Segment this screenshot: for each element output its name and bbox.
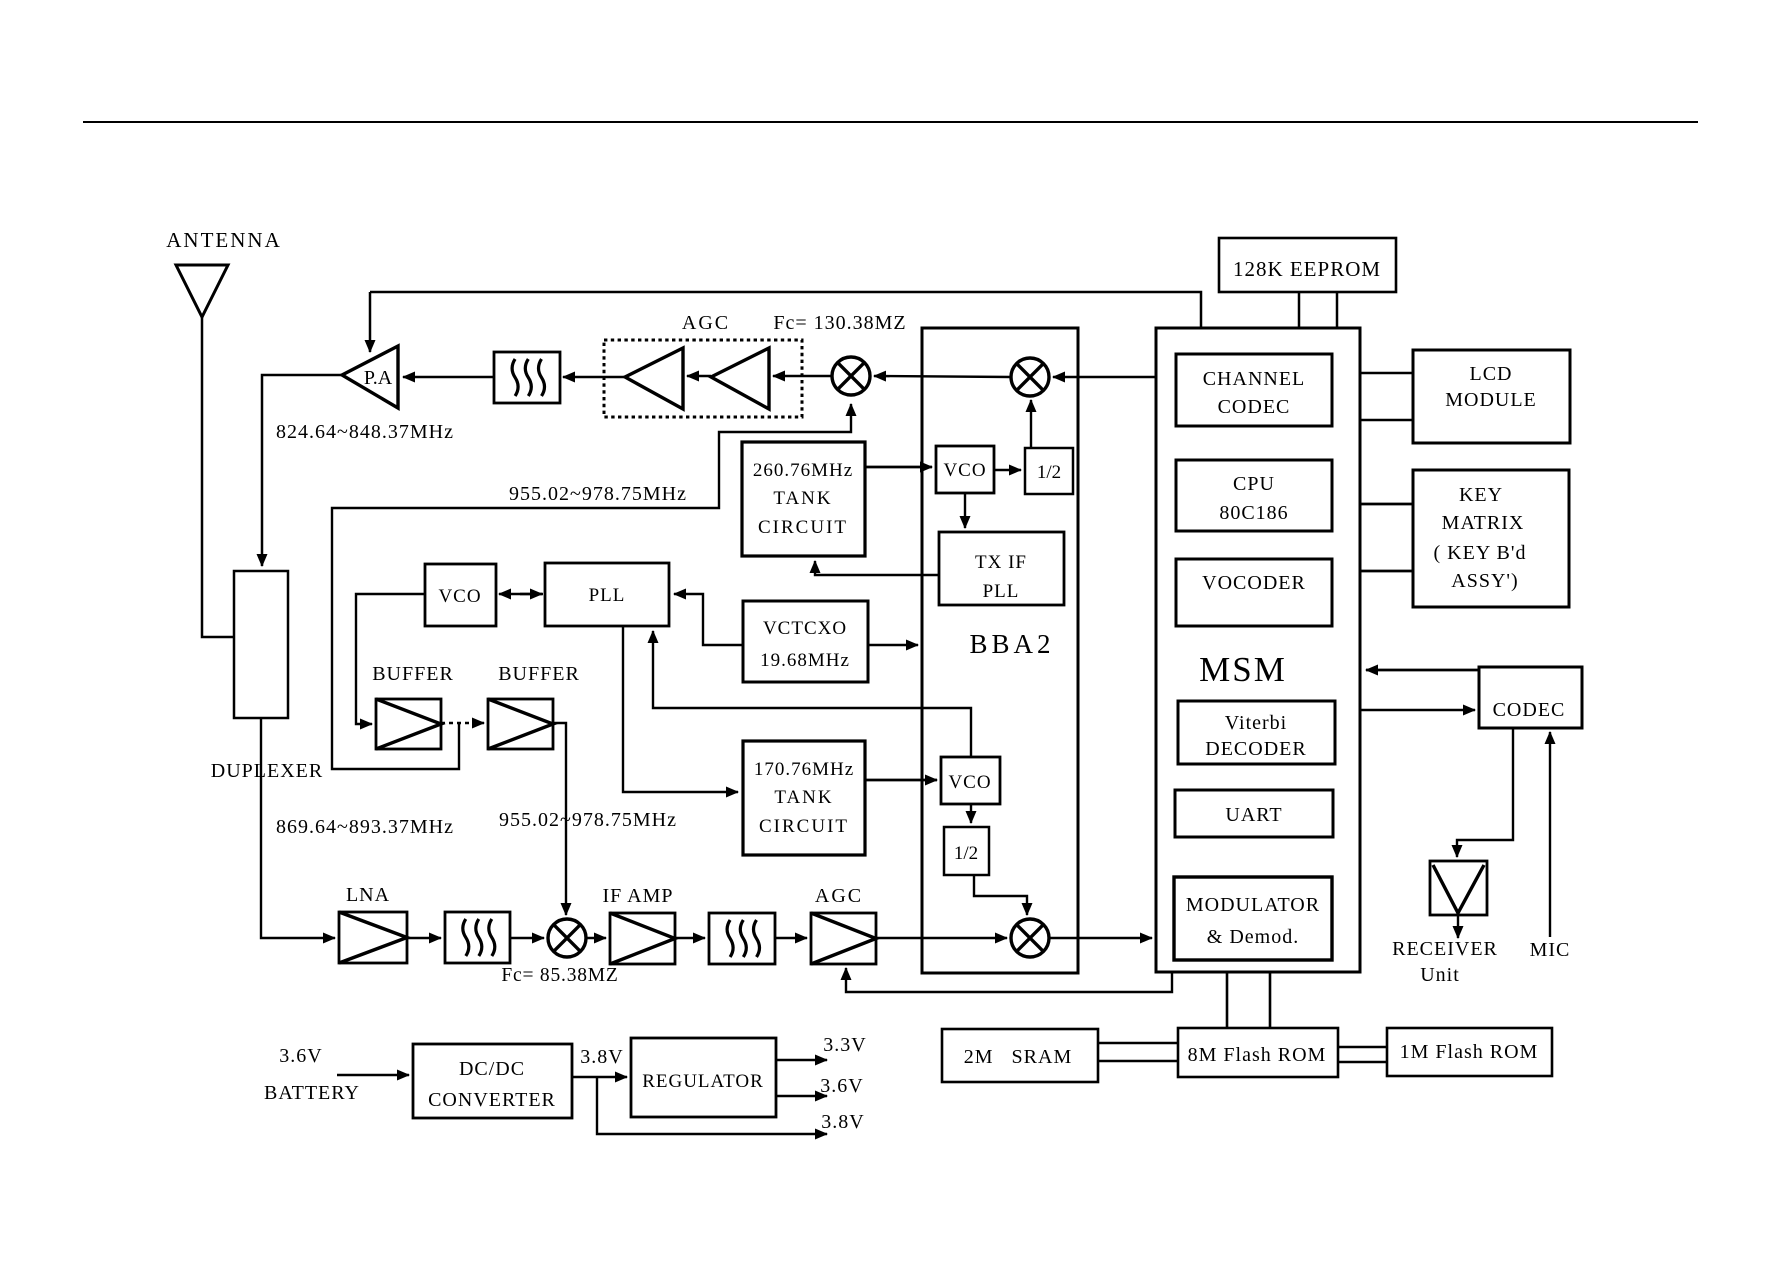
vocoder block [1176,559,1332,626]
svg-text:LCD: LCD [1470,363,1513,385]
divider 1/2 A [1025,448,1073,494]
svg-text:3.6V: 3.6V [820,1075,863,1097]
channel codec block [1176,354,1332,426]
if amplifier [610,913,675,964]
wire msm to 8m flash 1 [1226,972,1229,1028]
label MSM [1199,650,1287,689]
svg-text:TANK: TANK [773,488,832,509]
svg-text:CODEC: CODEC [1493,699,1566,721]
wire divider A to mixer TX2 [1030,400,1032,448]
wire mixer RX2 to MSM [1049,937,1152,939]
svg-text:CIRCUIT: CIRCUIT [759,816,849,837]
svg-text:Viterbi: Viterbi [1225,712,1287,734]
svg-text:Fc= 85.38MZ: Fc= 85.38MZ [501,965,618,986]
label TX band 824.64~848.37MHz [276,421,454,443]
wire VCO U1 and PLL U2 right [520,593,542,595]
svg-text:KEY: KEY [1459,484,1503,506]
svg-text:VCO: VCO [438,586,481,607]
wire msm to 8m flash 2 [1269,972,1272,1028]
wire AGC stage2 to stage1 [687,375,711,377]
svg-text:& Demod.: & Demod. [1207,926,1299,948]
wire battery to dcdc [337,1074,409,1076]
svg-text:BUFFER: BUFFER [498,663,580,685]
svg-text:19.68MHz: 19.68MHz [760,650,850,671]
svg-text:CPU: CPU [1233,473,1275,495]
amplifier P.A [342,346,398,408]
svg-text:VOCODER: VOCODER [1202,572,1306,594]
regulator box [631,1038,776,1117]
wire VCO U5 to divider B [970,804,972,823]
wire LNA to filter FL3 [407,937,441,939]
svg-text:DECODER: DECODER [1205,738,1306,760]
mixer TX2 [1011,358,1049,396]
buffer B2 [488,699,553,749]
wire eeprom to msm 2 [1336,292,1339,327]
wire TX LO from buffer tap to mixer TX1 [332,404,851,769]
svg-text:REGULATOR: REGULATOR [642,1071,764,1092]
codec box [1479,667,1582,728]
pll U2 [545,563,669,626]
label 955.02~978.75MHz upper [509,483,687,505]
bus 8m to 1m flash upper [1338,1046,1387,1049]
wire 3.8V branch [597,1077,827,1134]
wire mixer RX1 to IF AMP [586,937,606,939]
svg-text:CIRCUIT: CIRCUIT [758,517,848,538]
svg-text:955.02~978.75MHz: 955.02~978.75MHz [499,809,677,831]
vco U5 [941,757,1000,804]
label Fc= 130.38MZ [773,312,906,334]
mixer RX2 [1011,919,1049,957]
wire AGC amp to mixer RX2 [876,937,1007,939]
svg-text:( KEY B'd: ( KEY B'd [1434,542,1527,564]
wire IF AMP to filter FL4 [675,937,705,939]
svg-text:VCO: VCO [943,460,986,481]
svg-text:DUPLEXER: DUPLEXER [211,760,323,782]
receiver unit symbol [1430,861,1487,915]
svg-text:3.8V: 3.8V [821,1111,864,1133]
wire codec to msm [1366,669,1479,672]
svg-text:RECEIVER: RECEIVER [1392,938,1498,960]
wire codec to receiver [1457,728,1513,857]
wire P.A to duplexer [262,375,342,566]
svg-text:VCTCXO: VCTCXO [763,618,847,639]
svg-text:BUFFER: BUFFER [372,663,454,685]
svg-text:MODULE: MODULE [1445,389,1537,411]
wire feedback to P.A input [369,292,372,352]
viterbi decoder block [1178,701,1335,764]
svg-text:AGC: AGC [682,312,730,334]
wire msm to lcd 1 [1360,372,1413,375]
wire regulator 3.3V [776,1059,827,1061]
wire AGC gain control from MSM [846,968,1172,992]
svg-text:ASSY'): ASSY') [1451,570,1518,592]
wire msm to key 1 [1360,503,1413,506]
lcd module box [1413,350,1570,443]
wire tank T2 to VCO U5 [865,779,937,782]
mixer RX1 [548,919,586,957]
bus 8m to 1m flash lower [1338,1061,1387,1064]
svg-text:1/2: 1/2 [1037,462,1061,483]
svg-text:BBA2: BBA2 [969,629,1054,659]
svg-text:UART: UART [1225,804,1282,826]
svg-text:P.A: P.A [364,367,393,389]
svg-text:Fc= 130.38MZ: Fc= 130.38MZ [773,312,906,334]
sram box [942,1029,1098,1082]
wire VCO U5 feedback to PLL U2 [653,631,971,757]
bus sram to 8m flash lower [1098,1060,1178,1063]
filter FL4 [709,913,775,964]
bba2 box [922,328,1078,973]
vctcxo X1 [743,601,868,682]
svg-text:3.8V: 3.8V [580,1046,623,1068]
label MIC [1530,939,1571,961]
svg-text:260.76MHz: 260.76MHz [753,460,853,481]
eeprom box [1219,238,1396,292]
svg-text:MSM: MSM [1199,650,1287,689]
wire VCTCXO to PLL U2 [674,594,743,645]
svg-text:CHANNEL: CHANNEL [1203,368,1306,390]
label IF AMP [602,885,673,907]
tx if pll U4 [939,532,1064,605]
wire mic to codec [1549,732,1551,937]
svg-text:CONVERTER: CONVERTER [428,1089,556,1111]
antenna label [166,228,281,252]
wire feedback from MSM [370,292,1201,327]
label RX band 869.64~893.37MHz [276,816,454,838]
bus sram to 8m flash upper [1098,1042,1178,1045]
svg-text:1M Flash ROM: 1M Flash ROM [1400,1041,1539,1063]
label 3.6V battery [264,1045,360,1104]
svg-text:CODEC: CODEC [1218,396,1291,418]
wire VCO U3 to TX IF PLL [964,493,966,528]
wire buffer B2 to mixer RX1 LO [553,723,566,915]
wire mixer TX2 to mixer TX1 [874,376,1011,377]
wire filter FL4 to AGC amp [775,937,807,939]
svg-text:PLL: PLL [589,585,626,606]
antenna ANT1 [176,265,228,317]
wire PLL U2 to tank T2 [623,626,738,792]
svg-text:170.76MHz: 170.76MHz [754,759,854,780]
agc amplifier [811,913,876,964]
svg-text:2M SRAM: 2M SRAM [964,1046,1072,1068]
svg-text:1/2: 1/2 [954,843,978,864]
wire AGC to filter FL1 [563,376,625,379]
wire VCTCXO to BBA2 [868,644,918,646]
label RECEIVER [1392,938,1498,960]
wire antenna to duplexer [202,317,233,637]
wire regulator 3.6V [776,1095,827,1097]
label buffer B1 [372,663,454,685]
label 955.02~978.75MHz lower [499,809,677,831]
page rule [83,121,1698,123]
key matrix box [1413,470,1569,607]
svg-text:LNA: LNA [346,884,390,906]
filter FL1 [494,352,560,403]
lna amplifier [339,912,407,963]
wire TX IF PLL to tank T1 [815,561,939,575]
svg-text:869.64~893.37MHz: 869.64~893.37MHz [276,816,454,838]
label Fc= 85.38MZ [501,965,618,986]
wire mixer TX1 to AGC [773,375,832,377]
svg-text:DC/DC: DC/DC [459,1058,525,1080]
amplifier AGC stage 2 [711,348,769,409]
wire buffer B1 to B2 dashed [441,722,484,725]
label duplexer [211,760,323,782]
label Unit [1420,964,1460,986]
wire eeprom to msm 1 [1298,292,1301,327]
wire dcdc to regulator [572,1076,627,1078]
wire msm to lcd 2 [1360,419,1413,422]
svg-text:Unit: Unit [1420,964,1460,986]
duplexer FL2 [234,571,288,718]
svg-text:MATRIX: MATRIX [1442,512,1525,534]
svg-text:824.64~848.37MHz: 824.64~848.37MHz [276,421,454,443]
svg-text:3.6V: 3.6V [279,1045,322,1067]
wire receiver output [1457,915,1459,938]
vco U3 [936,446,994,493]
vco U1 [425,564,496,626]
wire tank T1 to VCO U3 [865,466,932,469]
wire VCO U1 and PLL U2 left [499,593,543,595]
svg-text:3.3V: 3.3V [823,1034,866,1056]
label BBA2 [969,629,1054,659]
svg-text:8M Flash ROM: 8M Flash ROM [1188,1044,1327,1066]
svg-text:TANK: TANK [774,787,833,808]
tank circuit T1 260.76MHz [742,442,865,556]
svg-text:VCO: VCO [948,772,991,793]
svg-text:PLL: PLL [983,581,1020,602]
wire VCO U3 to divider 1/2 [994,469,1021,471]
svg-text:MIC: MIC [1530,939,1571,961]
tank circuit T2 170.76MHz [743,741,865,855]
svg-text:AGC: AGC [815,885,863,907]
AGC block dashed box [604,340,802,417]
8m flash rom box [1178,1028,1338,1077]
wire divider B to mixer RX2 [974,875,1027,915]
label 3.8V out [821,1111,864,1133]
cpu block [1176,460,1332,531]
label buffer B2 [498,663,580,685]
mixer TX1 [832,357,870,395]
wire msm to key 2 [1360,570,1413,573]
dcdc converter box [413,1044,572,1118]
svg-text:BATTERY: BATTERY [264,1082,360,1104]
divider 1/2 B [944,827,989,875]
label AGC [682,312,730,334]
wire filter FL3 to mixer RX1 [510,937,544,939]
buffer B1 [376,699,441,749]
label 3.8V top [580,1046,623,1068]
wire msm to codec [1360,709,1475,711]
amplifier AGC stage 1 [625,348,683,409]
wire VCO U1 to buffer B1 [356,594,425,724]
label AGC amp [815,885,863,907]
svg-text:128K EEPROM: 128K EEPROM [1233,257,1381,281]
uart block [1175,790,1333,837]
svg-text:80C186: 80C186 [1219,502,1288,524]
msm box [1156,328,1360,972]
filter FL3 [445,912,510,963]
modulator demod block [1174,877,1332,960]
wire MSM to mixer TX2 [1053,376,1156,378]
svg-text:955.02~978.75MHz: 955.02~978.75MHz [509,483,687,505]
label LNA [346,884,390,906]
wire filter FL1 to P.A [403,376,494,379]
svg-text:TX IF: TX IF [975,552,1027,573]
svg-text:MODULATOR: MODULATOR [1186,894,1320,916]
1m flash rom box [1387,1028,1552,1076]
label 3.6V out [820,1075,863,1097]
svg-text:IF AMP: IF AMP [602,885,673,907]
wire duplexer to LNA [261,718,335,938]
label 3.3V [823,1034,866,1056]
svg-text:ANTENNA: ANTENNA [166,228,281,252]
